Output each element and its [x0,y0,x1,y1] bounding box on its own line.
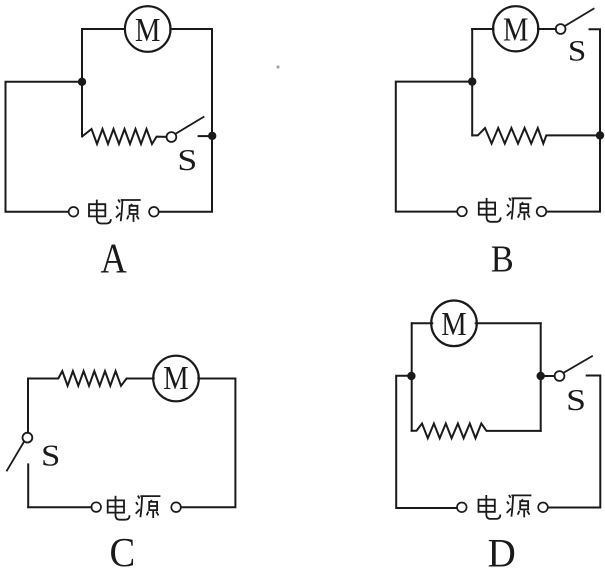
svg-text:S: S [566,383,586,417]
svg-text:M: M [135,11,160,49]
svg-text:C: C [110,530,136,569]
svg-text:D: D [488,531,516,569]
svg-text:M: M [163,359,188,397]
svg-text:S: S [41,439,60,473]
svg-text:M: M [503,10,528,48]
svg-text:M: M [441,304,466,342]
svg-text:B: B [491,238,514,280]
svg-text:S: S [568,34,586,67]
svg-text:A: A [100,235,127,282]
svg-text:S: S [177,143,197,177]
